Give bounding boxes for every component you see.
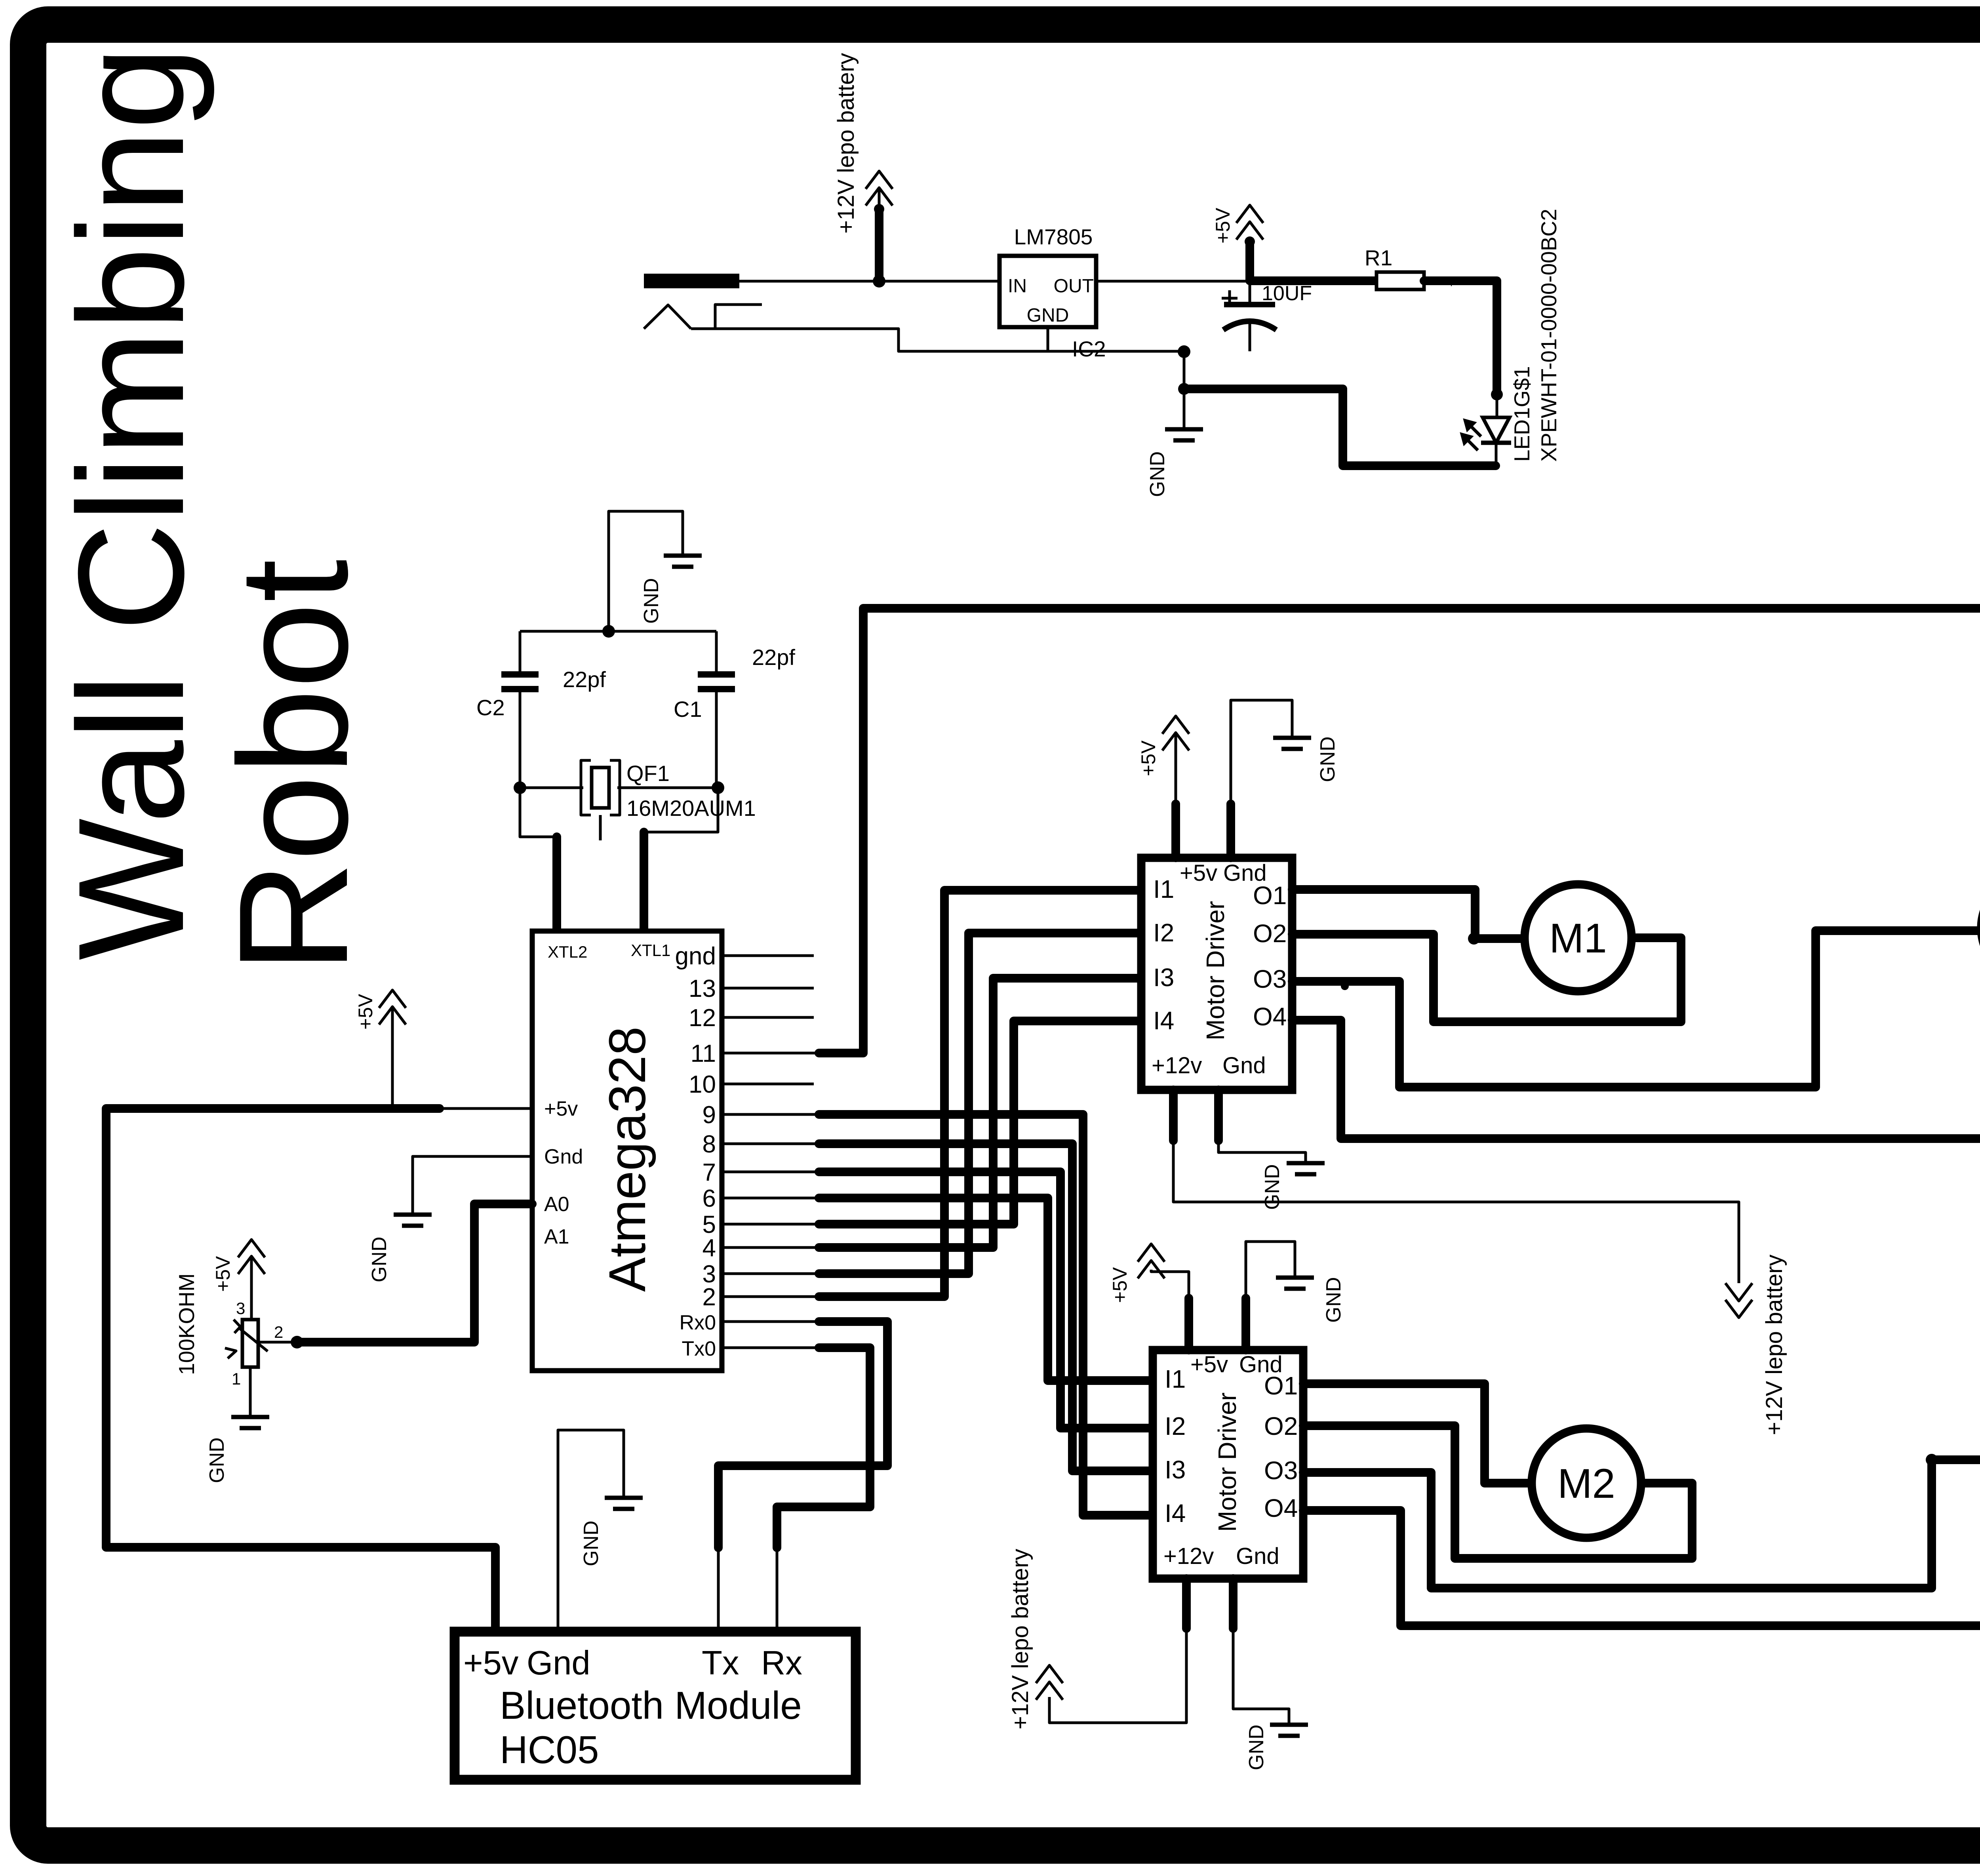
- wire MD2 O4 to M4: [1303, 1462, 1980, 1626]
- svg-text:Tx0: Tx0: [682, 1337, 716, 1360]
- svg-text:3: 3: [236, 1299, 245, 1318]
- motor M2: [1532, 1428, 1641, 1538]
- wire pin 7 to MD2 I2: [819, 1172, 1154, 1428]
- svg-text:8: 8: [703, 1131, 716, 1158]
- svg-text:I3: I3: [1165, 1455, 1186, 1484]
- node crystal gnd junction: [602, 625, 615, 638]
- svg-text:+5v: +5v: [1190, 1352, 1228, 1377]
- pin 6 stub: [722, 1197, 819, 1200]
- svg-text:XPEWHT-01-0000-00BC2: XPEWHT-01-0000-00BC2: [1536, 209, 1561, 462]
- pin stub 13: [722, 987, 814, 990]
- svg-text:O1: O1: [1264, 1371, 1298, 1400]
- wire ground node down: [1183, 352, 1186, 429]
- wire pin 9 to MD2 I4: [819, 1114, 1154, 1515]
- wire jack tip to LM7805 IN: [739, 280, 1000, 283]
- pin Rx0 stub: [722, 1320, 819, 1323]
- motor M1: [1525, 884, 1632, 991]
- pin 4 stub: [722, 1246, 819, 1249]
- wire Tx0 to BT Rx: [777, 1348, 870, 1548]
- svg-text:Wall Climbing: Wall Climbing: [47, 46, 216, 960]
- wire +5v rail to bluetooth: [106, 1108, 532, 1633]
- svg-text:A0: A0: [544, 1193, 569, 1216]
- wire MD2 top Gnd: [1246, 1242, 1295, 1298]
- svg-text:16M20AUM1: 16M20AUM1: [626, 796, 756, 821]
- pin 8 stub: [722, 1143, 819, 1145]
- svg-text:+5V: +5V: [354, 994, 377, 1030]
- svg-text:+5v: +5v: [544, 1097, 578, 1120]
- svg-text:10: 10: [689, 1071, 716, 1098]
- wire MD1 O2 to M1: [1292, 934, 1681, 1022]
- pin MD1 +5v stub: [1171, 804, 1180, 858]
- ground GND (bluetooth): [605, 1498, 643, 1509]
- svg-text:9: 9: [703, 1101, 716, 1129]
- node +12V junction: [873, 275, 885, 288]
- pin stub gnd: [722, 954, 814, 957]
- svg-text:GND: GND: [640, 578, 663, 624]
- wire MD1 O3 to M3: [1292, 931, 1980, 1087]
- svg-text:GND: GND: [1261, 1164, 1284, 1210]
- wire pin 5 to MD1 I4: [819, 1021, 1142, 1224]
- wire MD2 O3 to M4: [1303, 1460, 1980, 1588]
- node O3-M4: [1926, 1454, 1938, 1466]
- svg-text:I2: I2: [1153, 918, 1174, 947]
- svg-text:A1: A1: [544, 1225, 569, 1248]
- svg-text:GND: GND: [206, 1437, 228, 1483]
- node O3 bump: [1341, 982, 1349, 990]
- svg-text:I4: I4: [1165, 1499, 1186, 1527]
- svg-text:+5V: +5V: [212, 1256, 234, 1292]
- svg-text:XTL1: XTL1: [631, 941, 670, 960]
- svg-text:Gnd: Gnd: [1236, 1543, 1279, 1569]
- potentiometer 100KOHM: [225, 1299, 295, 1388]
- module Motor Driver 1: [1141, 858, 1292, 1090]
- pin BT Tx lead: [717, 1548, 720, 1632]
- pin stub 10: [722, 1083, 814, 1086]
- wire pin 11 PWM net: [819, 608, 1980, 1183]
- wire LM7805 OUT to +5V node: [1096, 280, 1250, 283]
- node O1-M1: [1468, 933, 1480, 945]
- svg-text:Robot: Robot: [207, 559, 380, 973]
- svg-text:Motor Driver: Motor Driver: [1213, 1392, 1241, 1532]
- power +12V lepo battery arrow (top): [866, 171, 893, 280]
- crystal QF1 16M20AUM1: [520, 760, 756, 840]
- pin MD2 Gnd bottom stub: [1229, 1579, 1237, 1628]
- svg-text:O4: O4: [1264, 1494, 1298, 1522]
- svg-text:Gnd: Gnd: [544, 1145, 583, 1168]
- svg-text:13: 13: [689, 975, 716, 1002]
- svg-text:+5V: +5V: [1137, 740, 1159, 776]
- ground GND (regulator): [1165, 429, 1203, 440]
- svg-text:M1: M1: [1549, 915, 1607, 962]
- power +5V arrow (regulator output): [1236, 205, 1263, 280]
- svg-text:10UF: 10UF: [1262, 282, 1312, 305]
- wire atmega Gnd pin: [413, 1156, 532, 1215]
- pin 11 stub: [722, 1052, 819, 1055]
- svg-text:+5V: +5V: [1109, 1267, 1131, 1303]
- svg-text:gnd: gnd: [675, 943, 716, 970]
- svg-text:+12v: +12v: [1152, 1053, 1202, 1078]
- svg-text:GND: GND: [1245, 1724, 1268, 1770]
- svg-text:Gnd: Gnd: [1222, 1053, 1266, 1078]
- svg-text:GND: GND: [1027, 305, 1069, 326]
- capacitor C2: [476, 631, 606, 788]
- wire R1 to LED anode: [1424, 281, 1497, 394]
- svg-text:+5v: +5v: [1180, 860, 1217, 886]
- svg-text:+5v: +5v: [463, 1644, 519, 1682]
- svg-text:Atmega328: Atmega328: [598, 1027, 656, 1292]
- diode LED1G$1: [1462, 394, 1511, 466]
- wire Rx0 to BT Tx: [718, 1322, 887, 1548]
- svg-text:100KOHM: 100KOHM: [174, 1273, 199, 1375]
- svg-text:O1: O1: [1253, 881, 1287, 910]
- svg-text:22pf: 22pf: [563, 667, 606, 692]
- wire crystal left to XTL2: [520, 788, 557, 933]
- wire MD1 O1 to M1: [1292, 889, 1525, 939]
- wire pin 2 to MD1 I1: [819, 890, 1142, 1297]
- ground GND (MD2 top): [1276, 1278, 1314, 1289]
- pin BT Rx lead: [776, 1548, 779, 1632]
- pin MD2 +12v stub: [1182, 1579, 1191, 1628]
- svg-text:I1: I1: [1153, 875, 1174, 903]
- power +5V arrow (atmega): [379, 990, 406, 1108]
- svg-text:IC2: IC2: [1072, 337, 1106, 361]
- ground GND (crystal): [664, 556, 702, 567]
- svg-text:Tx: Tx: [702, 1644, 739, 1682]
- pin Tx0 stub: [722, 1347, 819, 1349]
- svg-text:Gnd: Gnd: [527, 1644, 590, 1682]
- wire A0 to potentiometer: [297, 1204, 532, 1342]
- svg-text:11: 11: [691, 1040, 716, 1067]
- capacitor 10UF: [1222, 281, 1312, 351]
- svg-text:+12V lepo battery: +12V lepo battery: [1761, 1255, 1787, 1435]
- svg-text:OUT: OUT: [1054, 276, 1094, 297]
- ground GND (atmega): [394, 1215, 432, 1226]
- svg-text:GND: GND: [1322, 1277, 1345, 1323]
- node crystal left: [514, 781, 526, 794]
- svg-text:GND: GND: [580, 1520, 603, 1566]
- wire pin 8 to MD2 I3: [819, 1144, 1154, 1471]
- wire crystal right to XTL1: [644, 788, 718, 933]
- svg-text:I2: I2: [1165, 1412, 1186, 1440]
- wire MD1 +5v to arrow: [1175, 735, 1177, 804]
- svg-text:O2: O2: [1253, 919, 1287, 948]
- svg-text:M2: M2: [1557, 1461, 1615, 1507]
- svg-text:4: 4: [703, 1234, 716, 1262]
- svg-text:+12V lepo battery: +12V lepo battery: [1007, 1549, 1033, 1729]
- wire MD2 bottom Gnd: [1233, 1628, 1289, 1725]
- node crystal right: [712, 781, 724, 794]
- svg-text:+12V lepo battery: +12V lepo battery: [833, 53, 859, 234]
- wire MD1 bottom Gnd: [1218, 1141, 1306, 1163]
- module Bluetooth HC05: [455, 1632, 856, 1780]
- ground GND (pot): [231, 1417, 269, 1428]
- svg-text:LED1G$1: LED1G$1: [1510, 366, 1534, 462]
- svg-text:der 1: der 1: [1354, 276, 1374, 286]
- pin MD1 Gnd bottom stub: [1214, 1090, 1223, 1141]
- wire MD2 +5v to arrow: [1151, 1270, 1189, 1298]
- svg-text:O2: O2: [1264, 1412, 1298, 1440]
- ground GND (MD1 bottom): [1287, 1163, 1325, 1174]
- pin 7 stub: [722, 1171, 819, 1173]
- wire pot pin1 to gnd: [249, 1367, 252, 1417]
- wire jack sleeve to ground net: [691, 329, 1184, 351]
- power +5V arrow (MD1): [1162, 716, 1189, 750]
- wire pin 4 to MD1 I3: [819, 978, 1142, 1247]
- power +12V arrow down (MD1): [1725, 1283, 1752, 1318]
- svg-text:O3: O3: [1264, 1456, 1298, 1485]
- pin 5 stub: [722, 1223, 819, 1226]
- wire MD1 top Gnd: [1231, 700, 1292, 804]
- node pot wiper: [291, 1336, 303, 1348]
- svg-text:XTL2: XTL2: [548, 943, 587, 961]
- svg-text:C1: C1: [674, 697, 702, 722]
- svg-text:7: 7: [703, 1159, 716, 1186]
- svg-text:QF1: QF1: [626, 761, 670, 786]
- module Motor Driver 2: [1153, 1350, 1303, 1579]
- connector DC jack J1: [644, 274, 762, 329]
- svg-text:2: 2: [274, 1323, 283, 1341]
- svg-text:I1: I1: [1165, 1365, 1186, 1393]
- wire crystal top gnd net: [609, 511, 683, 631]
- wire BT Gnd: [558, 1430, 624, 1632]
- svg-text:I3: I3: [1153, 963, 1174, 992]
- wire +5V node to R1: [1250, 276, 1376, 285]
- ground GND (MD2 bottom): [1270, 1725, 1308, 1736]
- node thick gnd wire junction: [1178, 383, 1190, 395]
- wire LM7805 GND pin: [1047, 327, 1049, 351]
- pin MD1 +12v stub: [1169, 1090, 1178, 1141]
- resistor R1: [1365, 246, 1424, 289]
- wire pin 3 to MD1 I2: [819, 933, 1142, 1274]
- svg-text:2: 2: [703, 1284, 716, 1311]
- wire C2 to C1 top: [520, 630, 716, 633]
- power +12V arrow up (MD2): [1036, 1665, 1063, 1700]
- pin MD2 +5v stub: [1184, 1298, 1193, 1350]
- pin 9 stub: [722, 1113, 819, 1116]
- svg-text:GND: GND: [368, 1236, 391, 1282]
- wire MD2 O1 to M2: [1303, 1384, 1532, 1483]
- svg-text:O3: O3: [1253, 965, 1287, 993]
- svg-text:12: 12: [689, 1004, 716, 1032]
- svg-text:Rx0: Rx0: [680, 1311, 716, 1334]
- svg-text:Motor Driver: Motor Driver: [1201, 901, 1230, 1040]
- wire MD2 +12v to battery arrow: [1049, 1628, 1186, 1723]
- capacitor C1: [674, 631, 795, 788]
- node IC2 ground junction: [1178, 345, 1190, 358]
- svg-text:Bluetooth Module: Bluetooth Module: [500, 1684, 802, 1727]
- pin 2 stub: [722, 1295, 819, 1298]
- svg-text:GND: GND: [1316, 736, 1339, 782]
- svg-text:I4: I4: [1153, 1006, 1174, 1035]
- pin 3 stub: [722, 1272, 819, 1275]
- ground GND (MD1 top): [1273, 738, 1311, 749]
- wire MD2 O2 to M2: [1303, 1426, 1692, 1558]
- svg-text:HC05: HC05: [500, 1728, 599, 1771]
- wire MD1 O4 to M3: [1292, 928, 1980, 1139]
- svg-text:R1: R1: [1365, 246, 1392, 270]
- node LED anode: [1491, 389, 1503, 400]
- svg-text:O4: O4: [1253, 1002, 1287, 1031]
- wire ground to LED cathode: [1184, 389, 1496, 466]
- svg-text:1: 1: [232, 1369, 241, 1388]
- svg-text:+5V: +5V: [1212, 208, 1234, 244]
- wire pin 6 to MD2 I1: [819, 1198, 1154, 1381]
- power +5V arrow (MD2): [1138, 1244, 1165, 1278]
- svg-text:LM7805: LM7805: [1014, 225, 1093, 249]
- svg-text:IN: IN: [1008, 276, 1027, 297]
- pin MD2 Gnd top stub: [1241, 1298, 1250, 1350]
- svg-text:22pf: 22pf: [752, 645, 795, 670]
- IC Atmega328: [532, 931, 722, 1371]
- svg-text:6: 6: [703, 1185, 716, 1212]
- svg-text:GND: GND: [1146, 451, 1169, 497]
- pin stub 12: [722, 1016, 814, 1019]
- svg-text:+12v: +12v: [1163, 1543, 1214, 1569]
- regulator IC2 LM7805: [1000, 225, 1106, 361]
- wire MD1 +12v to battery arrow: [1173, 1141, 1739, 1283]
- svg-text:Rx: Rx: [761, 1644, 802, 1682]
- svg-text:C2: C2: [476, 695, 505, 720]
- pin MD1 Gnd top stub: [1226, 804, 1235, 858]
- power +5V arrow (pot): [238, 1240, 265, 1320]
